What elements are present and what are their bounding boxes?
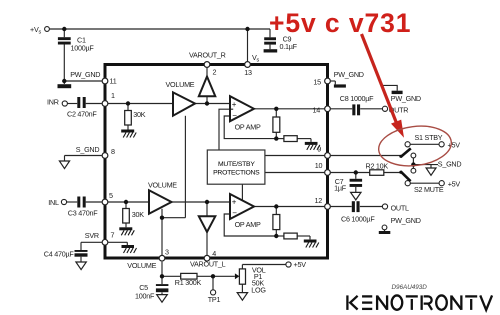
svg-text:13: 13	[244, 68, 252, 77]
svg-text:S1 STBY: S1 STBY	[415, 133, 443, 142]
svg-text:S2 MUTE: S2 MUTE	[414, 185, 444, 194]
svg-text:C3 470nF: C3 470nF	[68, 209, 98, 218]
svg-text:LOG: LOG	[251, 285, 266, 294]
svg-text:S_GND: S_GND	[438, 160, 462, 169]
svg-text:1: 1	[111, 91, 115, 100]
svg-text:−: −	[232, 111, 237, 120]
svg-text:+5V: +5V	[448, 180, 461, 189]
svg-text:OP AMP: OP AMP	[235, 122, 261, 131]
svg-text:R1 300K: R1 300K	[175, 278, 202, 287]
svg-text:8: 8	[111, 147, 115, 156]
svg-text:INR: INR	[47, 97, 59, 106]
svg-text:S_GND: S_GND	[76, 145, 100, 154]
svg-text:VOLUME: VOLUME	[127, 261, 156, 270]
svg-text:OUTL: OUTL	[391, 203, 409, 212]
svg-text:+5V: +5V	[294, 260, 307, 269]
svg-text:OP AMP: OP AMP	[235, 220, 261, 229]
svg-text:PW_GND: PW_GND	[391, 94, 421, 103]
svg-text:+: +	[232, 198, 237, 207]
svg-text:2: 2	[213, 67, 217, 76]
svg-text:12: 12	[315, 196, 323, 205]
svg-text:+: +	[232, 100, 237, 109]
svg-text:1000µF: 1000µF	[71, 43, 95, 52]
svg-text:1µF: 1µF	[334, 184, 347, 193]
svg-text:PW_GND: PW_GND	[70, 70, 100, 79]
svg-text:SVR: SVR	[85, 231, 99, 240]
svg-text:30K: 30K	[133, 110, 145, 119]
svg-text:VOLUME: VOLUME	[166, 80, 195, 89]
svg-text:VAROUT_L: VAROUT_L	[190, 260, 226, 269]
svg-text:11: 11	[110, 77, 117, 86]
svg-text:C6 1000µF: C6 1000µF	[341, 215, 375, 224]
svg-text:7: 7	[111, 231, 115, 240]
svg-text:INL: INL	[48, 198, 59, 207]
svg-text:−: −	[232, 209, 237, 218]
svg-text:5: 5	[109, 191, 113, 200]
svg-text:PW_GND: PW_GND	[391, 216, 421, 225]
svg-text:MUTE/STBY: MUTE/STBY	[218, 161, 255, 168]
svg-text:C2 470nF: C2 470nF	[67, 110, 97, 119]
svg-text:TP1: TP1	[208, 295, 221, 304]
svg-text:+5v c v731: +5v c v731	[269, 8, 411, 38]
svg-text:R2 10K: R2 10K	[366, 161, 389, 170]
svg-text:C5: C5	[139, 283, 148, 292]
svg-text:PW_GND: PW_GND	[334, 70, 364, 79]
svg-text:9: 9	[317, 144, 321, 153]
svg-text:VOLUME: VOLUME	[148, 181, 177, 190]
svg-text:3: 3	[165, 247, 169, 256]
svg-text:C8 1000µF: C8 1000µF	[340, 94, 374, 103]
svg-text:14: 14	[313, 105, 321, 114]
svg-text:15: 15	[313, 78, 321, 87]
svg-text:PROTECTIONS: PROTECTIONS	[213, 170, 260, 177]
svg-text:10: 10	[315, 161, 323, 170]
svg-text:VAROUT_R: VAROUT_R	[189, 51, 226, 60]
svg-text:4: 4	[212, 249, 216, 258]
svg-text:30K: 30K	[132, 210, 144, 219]
svg-text:C4 470µF: C4 470µF	[44, 249, 75, 258]
svg-text:0.1µF: 0.1µF	[280, 42, 298, 51]
svg-text:D96AU493D: D96AU493D	[392, 284, 428, 291]
svg-text:100nF: 100nF	[135, 292, 155, 301]
